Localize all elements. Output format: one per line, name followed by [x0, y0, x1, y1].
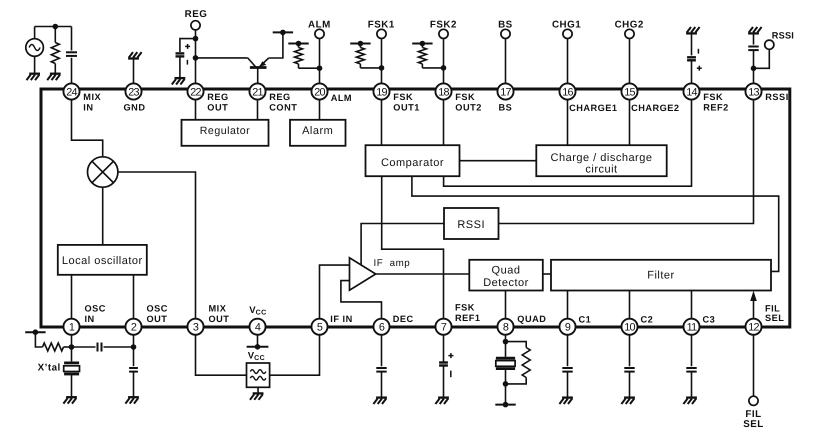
svg-text:OUT: OUT	[209, 314, 230, 324]
pin 9	[559, 319, 575, 335]
wire comparator to filter right edge	[412, 176, 779, 271]
capacitor between pin1 and pin2 nodes	[72, 343, 134, 352]
resistor parallel at QUAD	[506, 342, 531, 384]
ground below ceramic filter	[250, 393, 264, 399]
terminal CHG2	[615, 19, 644, 92]
svg-text:8: 8	[503, 322, 509, 334]
svg-text:20: 20	[314, 86, 325, 98]
svg-text:SEL: SEL	[765, 313, 784, 323]
svg-text:C2: C2	[641, 315, 654, 325]
supply stub for ALM resistor	[288, 41, 308, 47]
wire pin19 to comparator	[381, 92, 383, 145]
svg-text:OSC: OSC	[147, 304, 168, 314]
svg-text:QUAD: QUAD	[517, 314, 546, 324]
pin 7	[435, 319, 451, 335]
wire pin14 to comparator	[444, 92, 692, 186]
ground below C1 capacitor	[559, 398, 573, 404]
capacitor at C3	[686, 327, 696, 398]
block Charge/discharge circuit	[536, 145, 666, 176]
wire pin22 to regulator	[195, 92, 197, 120]
svg-text:IF amp: IF amp	[374, 258, 411, 269]
wire local oscillator to pin 2	[133, 275, 135, 327]
label MIX OUT	[209, 304, 230, 324]
node below pin 2	[131, 344, 137, 350]
svg-text:12: 12	[748, 322, 759, 334]
svg-text:CC: CC	[254, 355, 265, 362]
svg-text:1: 1	[69, 322, 75, 334]
terminal FSK2	[430, 19, 457, 92]
ground above pin 14	[686, 27, 700, 55]
pin 15	[621, 83, 637, 99]
wire filter to pin 11	[691, 291, 693, 327]
block Comparator	[366, 145, 460, 176]
resistor at mixer input	[51, 27, 59, 74]
pin 6	[373, 319, 389, 335]
node below pin 1	[69, 344, 75, 350]
wire pin20 to alarm	[319, 92, 321, 120]
label C3	[703, 315, 716, 325]
svg-text:REF1: REF1	[455, 313, 481, 323]
ground stub below pin 8	[495, 402, 515, 408]
svg-text:Comparator: Comparator	[381, 157, 444, 169]
terminal ALM	[308, 19, 331, 92]
wire comparator to charge/discharge circuit	[460, 160, 537, 162]
block Quad Detector	[469, 260, 543, 291]
svg-text:RSSI: RSSI	[765, 92, 788, 102]
pin 19	[373, 83, 389, 99]
ground below OSC OUT capacitor	[125, 397, 138, 403]
label BS	[499, 103, 513, 113]
svg-text:21: 21	[252, 86, 263, 98]
supply stub for transistor emitter	[273, 30, 293, 36]
svg-text:Detector: Detector	[483, 277, 529, 289]
pin 16	[559, 83, 575, 99]
node at resistor top	[53, 24, 59, 30]
label REG CONT	[269, 92, 297, 112]
svg-text:15: 15	[624, 86, 635, 98]
electrolytic capacitor at FSK REF1	[439, 327, 453, 398]
svg-text:Charge / discharge: Charge / discharge	[551, 152, 653, 164]
pin 21	[249, 83, 265, 99]
label OSC IN	[85, 304, 106, 324]
svg-text:Regulator: Regulator	[200, 125, 250, 137]
pin 8	[497, 319, 513, 335]
wire mixer to local oscillator	[102, 187, 104, 245]
pin 5	[311, 319, 327, 335]
svg-text:REF2: REF2	[703, 103, 729, 113]
resistor at FSK OUT1	[356, 44, 381, 68]
ceramic bandpass filter	[247, 363, 270, 393]
terminal REG	[185, 9, 208, 92]
svg-text:IN: IN	[85, 314, 95, 324]
svg-text:22: 22	[190, 86, 201, 98]
svg-text:17: 17	[500, 86, 511, 98]
capacitor at DEC	[376, 327, 386, 398]
capacitor at RSSI pin	[748, 47, 758, 93]
svg-text:FSK: FSK	[455, 92, 475, 102]
pin 24	[63, 83, 79, 99]
capacitor at C2	[624, 327, 634, 398]
ground below DEC capacitor	[373, 398, 387, 404]
svg-text:CONT: CONT	[269, 103, 297, 113]
wire pin16 to charge/discharge circuit	[567, 92, 569, 145]
wire pin21 to regulator	[257, 92, 259, 120]
svg-text:ALM: ALM	[331, 93, 352, 103]
node REG lower	[193, 55, 199, 61]
wire quad detector to pin 8	[505, 291, 507, 327]
node on FSK2 line	[441, 65, 447, 71]
svg-text:13: 13	[748, 86, 759, 98]
electrolytic capacitor at REG	[176, 39, 196, 79]
svg-text:BS: BS	[499, 103, 513, 113]
node below pin 8	[503, 327, 509, 357]
wire comparator to pin 7	[382, 176, 444, 327]
svg-text:OUT1: OUT1	[393, 103, 420, 113]
label MIX IN	[83, 92, 101, 112]
wire IF amp output to quad detector	[376, 273, 470, 275]
svg-text:7: 7	[441, 322, 447, 334]
terminal RSSI	[754, 31, 795, 69]
svg-text:IN: IN	[83, 103, 93, 113]
svg-text:FSK: FSK	[703, 92, 723, 102]
ground below FSK REF1 capacitor	[435, 398, 449, 404]
pin 4	[249, 319, 265, 335]
label FSK OUT2	[455, 92, 482, 112]
svg-text:OUT: OUT	[207, 103, 228, 113]
svg-text:MIX: MIX	[83, 92, 101, 102]
pin 13	[745, 83, 761, 99]
pin 11	[683, 319, 699, 335]
pin 3	[187, 319, 203, 335]
svg-text:14: 14	[686, 86, 697, 98]
svg-text:RSSI: RSSI	[772, 31, 794, 41]
transistor Q1 at REG CONT	[196, 32, 283, 92]
svg-text:RSSI: RSSI	[457, 219, 485, 231]
pin 12	[745, 319, 761, 335]
label FSK OUT1	[393, 92, 420, 112]
svg-text:4: 4	[255, 322, 261, 334]
wire local oscillator to pin 1	[71, 275, 73, 327]
wire filter to pin 10	[629, 291, 631, 327]
svg-text:REG: REG	[269, 92, 290, 102]
label DEC	[393, 314, 414, 324]
wire pin24 to mixer	[72, 92, 103, 157]
wire pin3 to ceramic filter	[196, 327, 247, 376]
supply stub for FSK1 resistor	[350, 41, 370, 47]
wire filter to pin 9	[567, 291, 569, 327]
block Alarm	[290, 120, 346, 146]
svg-text:DEC: DEC	[393, 314, 414, 324]
resistor at FSK OUT2	[418, 44, 443, 68]
svg-text:Filter: Filter	[647, 270, 674, 282]
svg-text:REG: REG	[185, 9, 208, 20]
ground below resistor	[47, 74, 61, 80]
svg-text:FSK: FSK	[455, 303, 475, 313]
svg-text:circuit: circuit	[585, 164, 617, 176]
block Local oscillator	[58, 245, 147, 275]
label GND	[124, 103, 146, 113]
svg-text:5: 5	[317, 322, 323, 334]
svg-text:C3: C3	[703, 315, 716, 325]
signal source (sine generator)	[26, 27, 44, 74]
node REG upper	[193, 36, 199, 42]
svg-text:Local oscillator: Local oscillator	[62, 255, 143, 267]
label FSK REF2	[703, 92, 729, 112]
IC package outline	[41, 89, 790, 327]
label OSC OUT	[147, 304, 168, 324]
terminal FSK1	[368, 19, 395, 92]
label CHARGE2	[631, 103, 679, 113]
svg-text:2: 2	[131, 322, 137, 334]
ground below crystal	[63, 397, 77, 403]
terminal FIL SEL	[743, 327, 764, 430]
svg-text:OUT2: OUT2	[455, 103, 482, 113]
wire pin15 to charge/discharge circuit	[629, 92, 631, 145]
ceramic discriminator at QUAD	[496, 358, 515, 404]
svg-text:GND: GND	[124, 103, 146, 113]
pin 2	[125, 319, 141, 335]
capacitor at C1	[562, 327, 572, 398]
wire source top node	[35, 26, 72, 28]
svg-text:10: 10	[624, 322, 635, 334]
block Regulator	[182, 120, 269, 146]
label QUAD	[517, 314, 546, 324]
pin 18	[435, 83, 451, 99]
pin 17	[497, 83, 513, 99]
ground below C2 capacitor	[621, 398, 635, 404]
ground below signal source	[27, 74, 41, 80]
ground above pin 23 GND	[128, 52, 142, 92]
pin 22	[187, 83, 203, 99]
wire IF amp to RSSI block	[361, 224, 444, 265]
node on ALM line	[317, 65, 323, 71]
svg-text:Quad: Quad	[492, 265, 521, 277]
wire mixer output to pin 3	[118, 172, 196, 327]
label REG OUT	[207, 92, 228, 112]
crystal X'tal	[38, 327, 80, 398]
svg-text:19: 19	[376, 86, 387, 98]
VCC stub below pin 4	[247, 327, 269, 362]
svg-text:24: 24	[66, 86, 77, 98]
svg-text:CHARGE1: CHARGE1	[569, 103, 617, 113]
svg-text:16: 16	[562, 86, 573, 98]
pin 14	[683, 83, 699, 99]
block Filter	[551, 260, 771, 291]
svg-text:Alarm: Alarm	[302, 125, 333, 137]
node on FSK1 line	[379, 65, 385, 71]
pin 10	[621, 319, 637, 335]
ground below REG capacitor	[172, 78, 186, 84]
terminal BS	[498, 19, 513, 92]
wire pin6 to IF amp input	[341, 281, 382, 327]
wire pin18 to comparator	[443, 92, 445, 145]
svg-text:9: 9	[565, 322, 571, 334]
label C2	[641, 315, 654, 325]
terminal CHG1	[552, 19, 581, 92]
resistor at ALM output	[295, 44, 320, 69]
pin 23	[125, 83, 141, 99]
svg-text:REG: REG	[207, 92, 228, 102]
label FSK REF1	[455, 303, 481, 323]
capacitor to pin 24	[66, 27, 77, 93]
label ALM	[331, 93, 352, 103]
label CHARGE1	[569, 103, 617, 113]
wire pin5 to IF amp input	[320, 265, 350, 327]
svg-text:SEL: SEL	[743, 419, 764, 430]
ground below C3 capacitor	[683, 398, 697, 404]
wire RSSI block to pin 13	[499, 92, 754, 224]
label FIL SEL pin12	[765, 304, 784, 323]
svg-text:23: 23	[128, 86, 139, 98]
svg-text:X’tal: X’tal	[38, 363, 61, 374]
label C1	[579, 315, 592, 325]
block RSSI	[444, 208, 499, 239]
label VCC pin4	[249, 305, 266, 317]
pin 1	[63, 319, 79, 335]
svg-text:C1: C1	[579, 315, 592, 325]
svg-text:MIX: MIX	[209, 304, 227, 314]
resistor at OSC IN	[35, 332, 71, 351]
wire ceramic filter to pin 5	[270, 327, 320, 376]
svg-text:IF IN: IF IN	[330, 314, 352, 324]
svg-text:OSC: OSC	[85, 304, 106, 314]
ground above pin 13	[748, 27, 762, 45]
svg-text:OUT: OUT	[147, 314, 168, 324]
node below QUAD discriminator	[503, 381, 509, 387]
svg-text:CC: CC	[256, 309, 267, 316]
electrolytic capacitor at FSK REF2	[687, 49, 702, 92]
svg-text:3: 3	[193, 322, 199, 334]
svg-text:FSK: FSK	[393, 92, 413, 102]
arrow pin12 FIL SEL to filter	[750, 291, 757, 327]
capacitor at OSC OUT	[129, 327, 138, 398]
svg-text:11: 11	[687, 322, 698, 334]
supply stub for FSK2 resistor	[412, 41, 432, 47]
svg-text:CHARGE2: CHARGE2	[631, 103, 679, 113]
input stub at pin 1	[25, 329, 45, 335]
label IF IN	[330, 314, 352, 324]
pin 20	[311, 83, 327, 99]
op-amp IF amp	[350, 258, 411, 290]
wire quad detector to filter	[543, 273, 551, 275]
label RSSI pin13	[765, 92, 788, 102]
svg-text:6: 6	[379, 322, 385, 334]
node on RSSI line	[751, 66, 757, 72]
svg-text:18: 18	[438, 86, 449, 98]
mixer (multiplier) symbol	[88, 157, 118, 187]
